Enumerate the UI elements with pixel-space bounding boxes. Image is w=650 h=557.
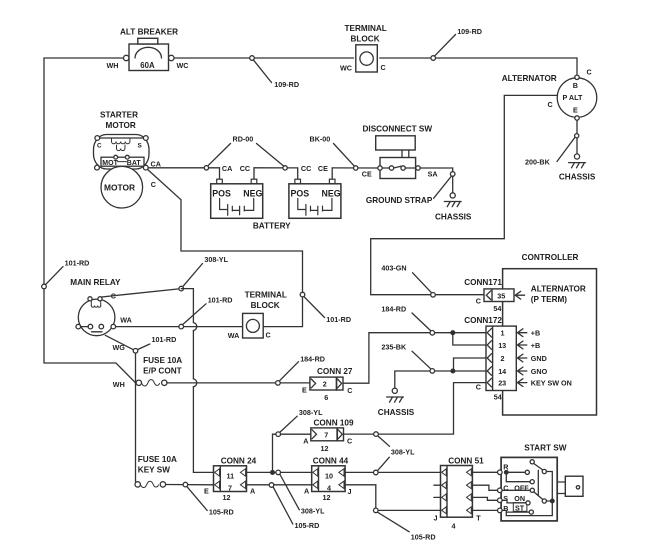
svg-text:MOTOR: MOTOR: [106, 121, 136, 130]
svg-text:184-RD: 184-RD: [381, 304, 406, 313]
label 184-RD lower: [300, 354, 325, 363]
svg-text:11: 11: [227, 471, 235, 480]
node junction 184-RD upper: [412, 313, 435, 335]
node junction 109-RD right: [431, 35, 456, 61]
connector CONN 27: [302, 367, 353, 402]
ground chassis 235-BK: [378, 371, 415, 417]
svg-text:BATTERY: BATTERY: [253, 222, 291, 231]
svg-text:C: C: [347, 386, 352, 395]
svg-text:101-RD: 101-RD: [208, 295, 233, 304]
label 308-YL conn51: [391, 448, 415, 457]
terminal block TB1: [340, 24, 387, 73]
svg-text:308-YL: 308-YL: [391, 448, 415, 457]
svg-text:35: 35: [497, 291, 505, 300]
svg-text:MOTOR: MOTOR: [104, 183, 135, 193]
node junction 101-RD right: [300, 292, 324, 317]
svg-text:CE: CE: [362, 170, 372, 179]
svg-text:CONN171: CONN171: [464, 278, 502, 287]
svg-text:2: 2: [501, 354, 505, 363]
svg-text:OFF: OFF: [514, 484, 529, 493]
svg-text:A: A: [304, 486, 309, 495]
svg-text:60A: 60A: [140, 61, 155, 70]
terminal block TB2: [228, 290, 287, 340]
node junction CA: [204, 166, 208, 170]
label 235-BK: [381, 342, 407, 351]
svg-text:C: C: [381, 63, 386, 72]
svg-text:MOT: MOT: [102, 160, 118, 167]
controller box: [503, 253, 597, 415]
fuse F2 10A KEY SW: [135, 455, 177, 488]
node junction 308-YL relay: [179, 264, 203, 291]
svg-text:E: E: [573, 106, 578, 115]
svg-text:S: S: [138, 143, 143, 150]
svg-text:308-YL: 308-YL: [301, 506, 325, 515]
wire 200-BK alternator E to chassis: [576, 121, 578, 154]
svg-text:54: 54: [494, 392, 502, 401]
svg-text:ALTERNATOR: ALTERNATOR: [531, 285, 586, 294]
node junction ground strap: [450, 172, 455, 193]
svg-text:GROUND STRAP: GROUND STRAP: [366, 196, 433, 205]
node junction 235-BK: [412, 351, 435, 373]
wire SA to ground: [420, 168, 453, 172]
svg-text:2: 2: [323, 380, 327, 389]
svg-text:WC: WC: [340, 64, 352, 73]
svg-text:CONTROLLER: CONTROLLER: [522, 253, 579, 262]
battery B1: [211, 164, 263, 218]
node junction 109-RD left: [250, 56, 272, 83]
svg-text:GNO: GNO: [531, 367, 548, 376]
svg-text:WA: WA: [120, 316, 132, 325]
svg-text:ON: ON: [514, 494, 525, 503]
svg-text:12: 12: [323, 493, 331, 502]
svg-text:13: 13: [498, 341, 506, 350]
node junction 105-RD fuse: [183, 482, 207, 510]
wire 105-RD fuse to CONN 24: [166, 484, 214, 486]
node junction CE: [354, 166, 358, 170]
svg-text:C: C: [548, 100, 553, 109]
wire CONN51 row2 to START SW C: [472, 485, 497, 490]
label CA starter terminal: [151, 159, 161, 168]
wire CONN51 row3 to START SW S: [472, 497, 497, 500]
wire 184-RD CONN27 C to CONN172 pins 1 13: [343, 331, 486, 383]
label 101-RD WG: [152, 335, 177, 344]
connector CONN171: [464, 278, 524, 313]
svg-text:101-RD: 101-RD: [152, 335, 177, 344]
svg-text:ST: ST: [515, 503, 525, 512]
svg-text:C: C: [347, 437, 352, 446]
svg-text:CC: CC: [301, 164, 311, 173]
label 101-RD WA: [208, 295, 233, 304]
label 200-BK: [525, 158, 551, 167]
wire 235-BK to CONN172 pins 2 14: [395, 358, 486, 373]
svg-text:CONN172: CONN172: [464, 316, 502, 325]
svg-text:BK-00: BK-00: [310, 135, 331, 144]
svg-text:POS: POS: [291, 188, 310, 198]
svg-text:CE: CE: [318, 164, 328, 173]
wire KEY SW ON CONN172 pin23 to CONN 109 C: [343, 383, 486, 435]
node junction 101-RD WG: [133, 344, 150, 353]
wire WH left feed: [44, 363, 136, 383]
svg-text:E: E: [204, 486, 209, 495]
wire CONN51 row4 to START SW B: [472, 509, 497, 511]
label 308-YL relay: [204, 255, 228, 264]
svg-text:12: 12: [321, 444, 329, 453]
svg-text:CONN 109: CONN 109: [314, 418, 354, 427]
svg-text:10: 10: [325, 471, 333, 480]
svg-text:WA: WA: [228, 331, 240, 340]
svg-text:DISCONNECT SW: DISCONNECT SW: [363, 125, 433, 134]
wire CONN51 row1 to START SW R: [472, 471, 497, 473]
wire 308-YL relay coil to junction: [102, 289, 182, 297]
alternator G1 P ALT: [502, 68, 597, 121]
label 308-YL conn109: [299, 408, 323, 417]
svg-text:105-RD: 105-RD: [411, 532, 436, 541]
svg-text:12: 12: [223, 493, 231, 502]
svg-text:FUSE 10A: FUSE 10A: [138, 455, 177, 464]
svg-text:308-YL: 308-YL: [204, 255, 228, 264]
node junction 105-RD conn51: [374, 508, 410, 532]
svg-text:C: C: [97, 143, 102, 150]
svg-text:MAIN RELAY: MAIN RELAY: [70, 278, 121, 287]
svg-text:WC: WC: [177, 61, 189, 70]
svg-text:ALT BREAKER: ALT BREAKER: [120, 28, 178, 37]
node junction 200-BK: [557, 134, 579, 162]
label 105-RD fuse: [209, 507, 234, 516]
svg-text:CONN 51: CONN 51: [448, 457, 484, 466]
node junction 101-RD WA: [179, 304, 206, 329]
svg-text:CHASSIS: CHASSIS: [435, 213, 472, 222]
label 403-GN: [381, 263, 406, 272]
label 184-RD upper: [381, 304, 406, 313]
svg-text:P ALT: P ALT: [563, 93, 583, 102]
connector CONN 44: [304, 456, 352, 502]
starter motor M1: [94, 111, 150, 209]
label 109-RD left: [274, 80, 299, 89]
label E CONN24: [204, 486, 209, 495]
wire 101-RD starter C to terminal block TB2: [148, 170, 303, 327]
svg-text:TERMINAL: TERMINAL: [245, 290, 287, 299]
svg-text:SA: SA: [428, 170, 438, 179]
svg-text:C: C: [503, 484, 508, 493]
svg-text:C: C: [476, 297, 481, 306]
svg-text:GND: GND: [531, 354, 547, 363]
svg-text:B: B: [573, 81, 578, 90]
label ALTERNATOR P TERM: [531, 285, 586, 304]
svg-text:+B: +B: [531, 341, 540, 350]
switch S2 contact block: [557, 476, 583, 496]
svg-text:CONN 44: CONN 44: [313, 456, 349, 465]
node junction 105-RD row: [269, 483, 293, 524]
switch S1 DISCONNECT SW: [362, 125, 438, 179]
svg-text:WG: WG: [113, 343, 126, 352]
label WG: [113, 343, 126, 352]
svg-text:WH: WH: [107, 61, 119, 70]
svg-text:BAT: BAT: [127, 160, 142, 167]
svg-text:4: 4: [327, 484, 331, 493]
ground chassis disconnect: [435, 193, 472, 222]
switch S2 START SW: [498, 443, 567, 521]
svg-text:(P TERM): (P TERM): [531, 295, 568, 304]
connector CONN 109: [303, 418, 354, 453]
svg-text:START SW: START SW: [524, 443, 566, 452]
svg-text:23: 23: [498, 379, 506, 388]
svg-text:KEY SW ON: KEY SW ON: [531, 379, 572, 388]
svg-text:+B: +B: [531, 329, 540, 338]
svg-text:CC: CC: [240, 164, 250, 173]
svg-text:CHASSIS: CHASSIS: [559, 173, 596, 182]
wire CONN44 10 to CONN51 row1: [345, 471, 440, 473]
svg-text:NEG: NEG: [322, 188, 341, 198]
svg-text:TERMINAL: TERMINAL: [345, 24, 387, 33]
svg-text:WH: WH: [113, 380, 125, 389]
svg-text:NEG: NEG: [243, 188, 262, 198]
svg-text:T: T: [476, 513, 481, 522]
label 101-RD left: [65, 258, 90, 267]
node junction 308-YL conn51: [374, 457, 390, 475]
node junction 184-RD lower: [276, 362, 299, 386]
svg-text:105-RD: 105-RD: [209, 507, 234, 516]
label GROUND STRAP: [366, 177, 451, 205]
wire row CONN24 7 to CONN44 4: [247, 484, 312, 486]
wire 184-RD fuse to CONN 27: [167, 382, 310, 384]
svg-text:14: 14: [498, 367, 506, 376]
connector CONN 24: [214, 456, 257, 502]
svg-text:109-RD: 109-RD: [274, 80, 299, 89]
label BK-00: [310, 135, 355, 166]
label RD-00: [208, 135, 283, 166]
battery B2: [289, 164, 341, 218]
svg-text:ALTERNATOR: ALTERNATOR: [502, 74, 557, 83]
svg-text:C: C: [587, 68, 592, 77]
svg-text:308-YL: 308-YL: [299, 408, 323, 417]
connector CONN172: [464, 316, 527, 401]
svg-text:J: J: [434, 513, 438, 522]
svg-text:200-BK: 200-BK: [525, 158, 551, 167]
label 308-YL row: [301, 506, 325, 515]
node junction 403-GN: [413, 273, 436, 297]
svg-text:C: C: [266, 331, 271, 340]
wire 308-YL CONN109 A down to row: [271, 434, 311, 474]
svg-text:54: 54: [493, 304, 501, 313]
svg-text:E/P CONT: E/P CONT: [143, 367, 182, 376]
svg-text:7: 7: [324, 430, 328, 439]
label BATTERY: [253, 222, 291, 231]
wire WG relay to fuse: [105, 335, 135, 481]
label 109-RD right: [457, 27, 482, 36]
svg-text:101-RD: 101-RD: [326, 315, 351, 324]
label WH fuse: [113, 380, 125, 389]
svg-text:4: 4: [452, 521, 456, 530]
label 101-RD right: [326, 315, 351, 324]
svg-text:184-RD: 184-RD: [300, 354, 325, 363]
svg-text:CA: CA: [222, 164, 232, 173]
wire J CONN44 to CONN51 row4: [345, 485, 440, 511]
node junction 308-YL row: [276, 470, 299, 510]
node junction 308-YL conn109: [276, 416, 297, 436]
svg-text:CONN 27: CONN 27: [317, 367, 353, 376]
wire WA relay to terminal block TB2: [116, 326, 243, 328]
svg-text:101-RD: 101-RD: [65, 258, 90, 267]
ground chassis alternator: [559, 154, 596, 182]
svg-text:FUSE 10A: FUSE 10A: [143, 356, 182, 365]
svg-text:7: 7: [228, 484, 232, 493]
svg-text:POS: POS: [212, 188, 231, 198]
svg-text:C: C: [151, 180, 156, 189]
svg-text:CONN 24: CONN 24: [221, 456, 257, 465]
label 105-RD conn51: [411, 532, 436, 541]
svg-text:235-BK: 235-BK: [381, 342, 407, 351]
wire 109-RD top bus: [44, 58, 577, 363]
svg-text:RD-00: RD-00: [233, 135, 254, 144]
svg-text:A: A: [250, 486, 255, 495]
fuse F1 10A E/P CONT: [136, 356, 182, 386]
relay K1 MAIN RELAY: [70, 278, 132, 336]
svg-text:BLOCK: BLOCK: [351, 35, 380, 44]
node junction 308-YL keyswon: [374, 432, 390, 446]
svg-text:CA: CA: [151, 159, 161, 168]
wire battery bus CA-CC-CE: [148, 167, 377, 169]
svg-text:6: 6: [324, 393, 328, 402]
wire 308-YL vertical to CONN 24: [181, 289, 213, 473]
svg-text:STARTER: STARTER: [100, 111, 138, 120]
svg-text:403-GN: 403-GN: [381, 263, 406, 272]
svg-text:KEY SW: KEY SW: [138, 465, 170, 474]
svg-text:A: A: [303, 437, 308, 446]
svg-text:105-RD: 105-RD: [295, 521, 320, 530]
svg-text:CHASSIS: CHASSIS: [378, 408, 415, 417]
svg-text:J: J: [348, 487, 352, 496]
breaker CB1 ALT BREAKER 60A: [107, 28, 189, 71]
wire 403-GN alternator C to controller: [371, 95, 558, 294]
connector CONN 51: [434, 457, 485, 531]
svg-text:BLOCK: BLOCK: [251, 301, 280, 310]
node junction 101-RD left: [42, 267, 63, 289]
label 105-RD row: [295, 521, 320, 530]
svg-text:E: E: [302, 385, 307, 394]
label CONN172 pin names: [531, 329, 572, 388]
svg-text:C: C: [476, 382, 481, 391]
label C starter wire: [151, 180, 156, 189]
node junction CC: [283, 166, 287, 170]
svg-text:109-RD: 109-RD: [457, 27, 482, 36]
svg-text:1: 1: [501, 329, 505, 338]
wire row CONN24 11 to CONN44 10: [247, 471, 312, 473]
